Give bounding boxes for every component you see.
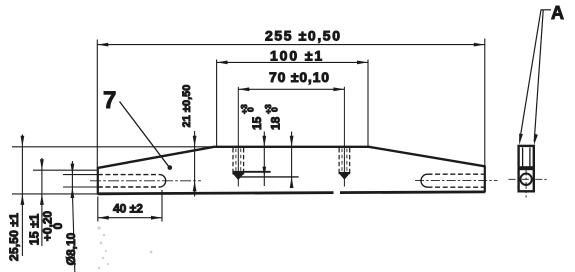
tapped hole 2 centerline / extension [343,87,345,187]
dimension 100 left arrow [217,61,228,65]
tapped hole 1 inner right hidden line [240,149,242,173]
part right end face [484,166,486,193]
svg-text:0: 0 [51,222,65,229]
dimension 15 +3/0 text [239,104,264,130]
part right ramp edge [370,147,485,166]
dimension dia 8,10 tolerance text [41,210,65,241]
svg-text:21 ±0,50: 21 ±0,50 [181,85,193,128]
dimension 15 +3/0 bottom arrow [262,167,266,177]
svg-text:100 ±1: 100 ±1 [270,48,324,64]
dimension 255 left extension line [96,40,98,168]
dimension 25,50 top arrow [21,136,25,147]
dimension 25,50 bottom arrow [21,194,25,205]
extension line bottom left [12,193,98,195]
tapped hole 1 inner left hidden line [235,149,237,173]
tapped hole 2 bottom bar [339,172,351,174]
dimension 21 bottom arrow [193,181,197,192]
dimension 25,50 line [21,135,23,257]
right hole centerline [415,180,498,182]
right hole hidden top line [428,173,485,175]
tapped hole 1 outer left hidden line [232,148,234,173]
dimension 15 left bottom arrow [40,194,44,205]
left hole hidden bottom line [98,186,160,188]
dimension dia 8,10 bottom arrow [71,187,75,198]
item 7 leader dot [168,165,173,170]
extension line hole bottom [63,186,98,188]
tapped hole 2 outer right hidden line [349,148,351,172]
extension line end top edge (15 reference) [33,169,98,171]
part bottom edge [98,192,485,194]
part top flat edge [213,146,370,148]
dimension 25,50 text [7,213,21,261]
dimension dia 8,10 line [71,161,73,199]
dimension 255 left arrow [97,43,108,47]
end view inner left edge [522,148,524,167]
dimension 40 left arrow [98,216,109,220]
left hole centerline [90,180,201,182]
dimension 40 left extension line [97,197,99,222]
dimension 21 line [194,131,196,197]
left hole rounded end [160,175,166,187]
tapped hole 2 inner left hidden line [341,149,343,172]
dimension 15 left top arrow [40,159,44,170]
dimension 255 right extension line [484,39,486,167]
svg-text:0: 0 [246,107,256,112]
end view horizontal centerline [509,178,548,180]
svg-text:A: A [551,3,564,23]
dimension 40 right arrow [151,216,162,220]
dimension 100 right extension line [367,60,369,147]
svg-text:Ø8,10: Ø8,10 [64,232,78,265]
dimension 100 line [217,61,368,63]
dimension 18 +3/0 line [291,132,293,189]
dimension dia 8,10 text [64,232,78,265]
dimension 18 +3/0 bottom arrow [290,177,294,188]
dimension 255 line [97,44,485,46]
tapped hole 1 drill point [234,174,243,179]
tapped hole 2 inner right hidden line [346,149,348,172]
item 7 leader line [120,102,170,168]
view A leader tick [541,9,552,11]
svg-text:18: 18 [269,116,283,130]
dimension 40 right extension line [161,190,163,222]
dimension dia 8,10 top arrow [71,164,75,175]
dimension 255 right arrow [474,43,485,47]
scan smudge artifacts [97,226,152,269]
dimension 70 right arrow [333,87,344,91]
end view hole circle [520,174,531,185]
svg-text:255 ±0,50: 255 ±0,50 [265,28,342,44]
dimension 100 left extension line [216,60,218,147]
view A leader line 1 arrow [519,134,523,146]
extension line top flat left (21 / 25,50 reference) [12,146,213,148]
depth reference line 18 [239,176,299,178]
dimension 21 top arrow [193,136,197,147]
view A leader line 1 [520,10,541,141]
left hole hidden top line [98,174,160,176]
tapped hole 1 centerline / extension [237,87,239,187]
dimension 15 left text [27,214,41,245]
end view vertical centerline [525,169,527,198]
dimension 15 left line [41,158,43,246]
dimension 18 +3/0 top arrow [290,136,294,147]
tapped hole 1 outer right hidden line [243,148,245,173]
svg-text:15 ±1: 15 ±1 [27,214,41,245]
right hole rounded end [421,174,427,187]
end view outline [519,146,534,191]
dimension 70 left arrow [238,87,249,91]
svg-text:25,50 ±1: 25,50 ±1 [7,213,21,261]
dimension 100 right arrow [357,61,368,65]
dimension 15 +3/0 line [263,132,265,187]
tapped hole 1 bottom bar [232,172,244,174]
depth reference line 15 [233,171,271,173]
right hole hidden bottom line [428,186,485,188]
svg-text:15: 15 [250,116,264,130]
view A leader line 2 arrow [534,134,538,146]
part left end face [97,167,99,195]
dimension 18 +3/0 text [263,104,282,130]
svg-text:0: 0 [269,107,279,112]
dimension 15 +3/0 top arrow [262,136,266,147]
end view step edge band [519,166,534,170]
dimension 21 text [181,85,193,128]
dimension 40 line [98,217,162,219]
end view inner right edge [529,148,531,167]
svg-text:40 ±2: 40 ±2 [113,201,143,215]
svg-text:7: 7 [103,87,116,114]
svg-text:70 ±0,10: 70 ±0,10 [269,69,330,85]
view A leader line 2 [534,10,543,141]
part left ramp edge [98,147,214,168]
tapped hole 2 outer left hidden line [338,148,340,172]
bottom edge scan gap [334,190,341,195]
extension line hole top [63,174,98,176]
tapped hole 2 drill point [340,174,349,179]
dimension 70 line [238,88,344,90]
